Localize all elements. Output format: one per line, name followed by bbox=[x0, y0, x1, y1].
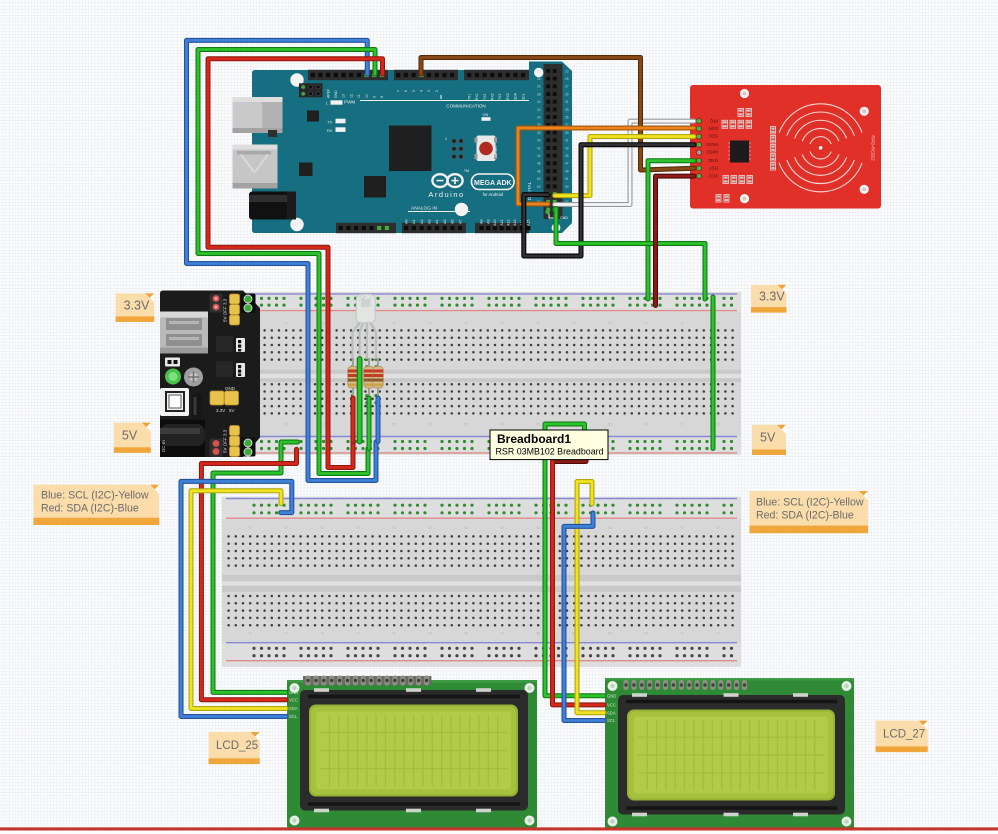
LCD module LCD_27 (I2C 20x4 LCD) bbox=[600, 678, 855, 829]
svg-text:33: 33 bbox=[565, 108, 569, 112]
svg-text:Blue: SCL (I2C)-Yellow: Blue: SCL (I2C)-Yellow bbox=[756, 497, 864, 509]
svg-text:30: 30 bbox=[537, 100, 541, 104]
wire blue BB2 rail to LCD_25 SCL bbox=[181, 481, 292, 716]
svg-text:GND: GND bbox=[560, 216, 568, 220]
svg-text:10: 10 bbox=[716, 526, 720, 530]
wire green Arduino D9 to BB1 bottom rail bbox=[198, 50, 375, 474]
svg-text:A10: A10 bbox=[493, 220, 497, 226]
note 5V left bbox=[114, 423, 151, 453]
svg-text:34: 34 bbox=[537, 116, 541, 120]
svg-text:26: 26 bbox=[537, 85, 541, 89]
svg-text:30: 30 bbox=[428, 631, 432, 635]
wire green rail jumper BB1 top to bottom bbox=[711, 297, 716, 449]
wire red Arduino D8 to BB1 bottom rail bbox=[208, 59, 383, 468]
svg-text:20: 20 bbox=[356, 526, 360, 530]
wire green BB1 rail to LCD_27 GND bbox=[545, 424, 604, 696]
svg-text:55: 55 bbox=[608, 631, 612, 635]
svg-text:27: 27 bbox=[565, 85, 569, 89]
svg-text:MISO: MISO bbox=[706, 150, 718, 155]
svg-text:23: 23 bbox=[565, 69, 569, 73]
svg-text:25: 25 bbox=[392, 423, 396, 427]
svg-text:3.3V: 3.3V bbox=[124, 298, 150, 312]
wire red BB1 rail to LCD_25 VCC bbox=[201, 449, 296, 699]
svg-text:60: 60 bbox=[644, 631, 648, 635]
svg-text:20: 20 bbox=[356, 631, 360, 635]
svg-text:15: 15 bbox=[320, 526, 324, 530]
svg-text:53: 53 bbox=[565, 185, 569, 189]
svg-text:A4: A4 bbox=[435, 220, 439, 224]
note I2C left bbox=[33, 485, 159, 525]
wire yellow BB2 rail to LCD_27 SDA bbox=[577, 482, 604, 713]
svg-text:A1: A1 bbox=[412, 220, 416, 224]
svg-text:Red: SDA (I2C)-Blue: Red: SDA (I2C)-Blue bbox=[41, 502, 139, 514]
Arduino Mega ADK U1 bbox=[233, 62, 573, 834]
svg-text:11: 11 bbox=[357, 94, 361, 98]
svg-text:13: 13 bbox=[342, 94, 346, 98]
LCD module LCD_25 (I2C 20x4 LCD) bbox=[282, 676, 538, 829]
svg-text:DIGITAL: DIGITAL bbox=[527, 181, 533, 200]
svg-text:35: 35 bbox=[464, 322, 468, 326]
svg-text:A12: A12 bbox=[507, 220, 511, 226]
svg-text:AREF: AREF bbox=[326, 89, 330, 98]
svg-text:5: 5 bbox=[412, 90, 416, 92]
svg-text:10: 10 bbox=[284, 526, 288, 530]
svg-text:10: 10 bbox=[284, 322, 288, 326]
svg-text:28: 28 bbox=[537, 92, 541, 96]
svg-text:45: 45 bbox=[536, 322, 540, 326]
svg-text:A9: A9 bbox=[486, 220, 490, 224]
svg-text:42: 42 bbox=[537, 146, 541, 150]
svg-text:30: 30 bbox=[428, 322, 432, 326]
svg-text:10: 10 bbox=[716, 631, 720, 635]
svg-text:32: 32 bbox=[537, 108, 541, 112]
svg-text:RX: RX bbox=[327, 128, 333, 133]
breadboard BB2 bbox=[222, 497, 741, 667]
svg-text:8: 8 bbox=[380, 96, 384, 98]
svg-text:SDA: SDA bbox=[289, 706, 298, 711]
note LCD_27 bbox=[876, 721, 928, 753]
svg-text:TM: TM bbox=[464, 169, 469, 173]
svg-text:MEGA ADK: MEGA ADK bbox=[474, 180, 512, 187]
wire brown Arduino D5 to RC522 RST bbox=[421, 58, 694, 171]
svg-text:25: 25 bbox=[392, 322, 396, 326]
svg-text:10: 10 bbox=[716, 322, 720, 326]
svg-text:50: 50 bbox=[572, 322, 576, 326]
svg-text:45: 45 bbox=[536, 423, 540, 427]
RFID-RC522 module U3 bbox=[690, 85, 881, 209]
svg-text:IRQ: IRQ bbox=[709, 118, 718, 123]
svg-text:40: 40 bbox=[500, 423, 504, 427]
svg-text:PWM: PWM bbox=[344, 100, 355, 105]
note 5V right bbox=[752, 425, 786, 455]
note 3.3V left bbox=[116, 293, 155, 322]
wire dark red BB1 rail stub bbox=[553, 449, 587, 461]
svg-text:22: 22 bbox=[537, 69, 541, 73]
svg-text:7: 7 bbox=[396, 90, 400, 92]
svg-text:6: 6 bbox=[404, 90, 408, 92]
note I2C right bbox=[750, 491, 869, 533]
svg-text:Red: SDA (I2C)-Blue: Red: SDA (I2C)-Blue bbox=[756, 509, 854, 521]
wire blue BB2 rail to LCD_27 SCL bbox=[564, 513, 604, 721]
svg-text:35: 35 bbox=[464, 526, 468, 530]
svg-text:SCK: SCK bbox=[708, 134, 718, 139]
svg-text:10: 10 bbox=[284, 423, 288, 427]
svg-text:LCD_25: LCD_25 bbox=[216, 740, 258, 752]
svg-text:31: 31 bbox=[565, 100, 569, 104]
svg-text:51: 51 bbox=[565, 177, 569, 181]
svg-text:A6: A6 bbox=[451, 220, 455, 224]
svg-text:SCL: SCL bbox=[607, 718, 616, 723]
svg-text:25: 25 bbox=[392, 631, 396, 635]
tooltip Breadboard1 bbox=[490, 430, 608, 460]
svg-text:A0: A0 bbox=[404, 220, 408, 224]
svg-text:48: 48 bbox=[537, 169, 541, 173]
svg-text:60: 60 bbox=[644, 322, 648, 326]
svg-text:5: 5 bbox=[249, 526, 251, 530]
svg-text:A8: A8 bbox=[480, 220, 484, 224]
svg-text:25: 25 bbox=[392, 526, 396, 530]
svg-text:VCC: VCC bbox=[289, 697, 298, 702]
note LCD_25 bbox=[209, 732, 260, 764]
svg-text:RX3: RX3 bbox=[506, 93, 510, 100]
svg-text:MOSI: MOSI bbox=[706, 142, 718, 147]
svg-text:GND: GND bbox=[289, 690, 298, 695]
MB102 power supply module U2 bbox=[160, 291, 260, 458]
resistor R1 bbox=[348, 358, 358, 398]
header bottom power/analog pins bbox=[336, 223, 396, 233]
svg-text:A13: A13 bbox=[513, 220, 517, 226]
svg-text:GND: GND bbox=[334, 90, 338, 98]
svg-text:5: 5 bbox=[681, 526, 683, 530]
svg-text:SSN: SSN bbox=[709, 126, 718, 131]
header right dual-row 22-53 bbox=[544, 64, 563, 219]
svg-text:3.3V: 3.3V bbox=[759, 289, 785, 303]
svg-text:47: 47 bbox=[565, 162, 569, 166]
svg-text:2: 2 bbox=[435, 90, 439, 92]
svg-text:40: 40 bbox=[537, 139, 541, 143]
resistor R2 bbox=[364, 358, 374, 398]
BB1 highlighted holes bbox=[351, 358, 354, 361]
svg-text:SCL: SCL bbox=[289, 714, 298, 719]
svg-text:35: 35 bbox=[565, 116, 569, 120]
wire blue Arduino D10 to BB1 bottom rail bbox=[187, 40, 377, 480]
wire green BB1 rail to LCD_25 GND bbox=[213, 442, 298, 692]
svg-text:GND: GND bbox=[225, 386, 236, 391]
svg-text:A3: A3 bbox=[428, 220, 432, 224]
wire red resistor R1 to rail bbox=[351, 398, 356, 442]
svg-text:TX2: TX2 bbox=[483, 94, 487, 100]
svg-text:24: 24 bbox=[537, 77, 541, 81]
svg-text:RFID-RC522: RFID-RC522 bbox=[871, 135, 876, 161]
wire green RC522 GND to BB1 top rail bbox=[648, 161, 694, 299]
svg-text:45: 45 bbox=[536, 526, 540, 530]
header top digital/pwm pins bbox=[308, 70, 388, 80]
svg-text:ANALOG IN: ANALOG IN bbox=[411, 206, 438, 212]
svg-text:5V: 5V bbox=[760, 431, 776, 445]
svg-text:GND: GND bbox=[538, 819, 542, 827]
svg-text:1: 1 bbox=[445, 137, 447, 141]
wire blue resistor R3 to rail bbox=[376, 398, 381, 442]
svg-text:ON: ON bbox=[483, 113, 489, 117]
svg-text:A11: A11 bbox=[500, 220, 504, 226]
svg-text:VCC: VCC bbox=[708, 173, 718, 178]
wire dark red RC522 VCC to BB1 top rail bbox=[656, 176, 695, 305]
wire green LED cathode to rail bbox=[357, 359, 363, 442]
svg-text:TX1: TX1 bbox=[467, 94, 471, 100]
svg-text:9: 9 bbox=[373, 96, 377, 98]
svg-text:RSR 03MB102 Breadboard: RSR 03MB102 Breadboard bbox=[496, 447, 604, 457]
wire red to LCD_27 VCC bbox=[553, 462, 605, 705]
svg-text:12: 12 bbox=[349, 94, 353, 98]
svg-text:29: 29 bbox=[565, 92, 569, 96]
bottom red divider bbox=[0, 827, 998, 830]
svg-text:44: 44 bbox=[537, 154, 541, 158]
svg-text:4: 4 bbox=[420, 90, 424, 92]
RGB LED D1 bbox=[352, 294, 376, 359]
svg-text:DC-In: DC-In bbox=[161, 440, 166, 452]
svg-text:10: 10 bbox=[716, 423, 720, 427]
svg-text:5V: 5V bbox=[229, 408, 235, 413]
svg-text:39: 39 bbox=[565, 131, 569, 135]
svg-text:SDA: SDA bbox=[607, 710, 616, 715]
svg-text:VCC: VCC bbox=[607, 703, 616, 708]
svg-text:45: 45 bbox=[536, 631, 540, 635]
wire orange Arduino pin to RC522 SSN bbox=[518, 128, 694, 204]
wire green Arduino GND to BB1 top rail bbox=[556, 209, 705, 300]
resistor R3 bbox=[373, 358, 383, 398]
svg-text:35: 35 bbox=[464, 631, 468, 635]
svg-text:COMMUNICATION: COMMUNICATION bbox=[446, 104, 485, 109]
svg-text:RX1: RX1 bbox=[475, 93, 479, 100]
svg-text:RX2: RX2 bbox=[491, 93, 495, 100]
svg-text:35: 35 bbox=[464, 423, 468, 427]
svg-text:40: 40 bbox=[500, 322, 504, 326]
svg-text:43: 43 bbox=[565, 146, 569, 150]
svg-text:A2: A2 bbox=[420, 220, 424, 224]
svg-text:49: 49 bbox=[565, 169, 569, 173]
svg-text:5: 5 bbox=[681, 322, 683, 326]
svg-text:TX3: TX3 bbox=[498, 94, 502, 100]
svg-text:60: 60 bbox=[644, 423, 648, 427]
svg-text:5: 5 bbox=[249, 631, 251, 635]
svg-text:LCD_27: LCD_27 bbox=[883, 729, 925, 741]
svg-text:15: 15 bbox=[320, 631, 324, 635]
wire black Arduino pin to RC522 MOSI bbox=[524, 145, 694, 256]
svg-text:60: 60 bbox=[644, 526, 648, 530]
svg-text:5: 5 bbox=[681, 423, 683, 427]
svg-text:SDA: SDA bbox=[514, 92, 518, 100]
svg-text:10: 10 bbox=[284, 631, 288, 635]
svg-text:50: 50 bbox=[537, 177, 541, 181]
svg-text:TX: TX bbox=[327, 119, 332, 124]
svg-text:3.3V: 3.3V bbox=[216, 408, 225, 413]
svg-text:3: 3 bbox=[427, 90, 431, 92]
svg-text:Arduino: Arduino bbox=[428, 190, 464, 199]
svg-text:40: 40 bbox=[500, 631, 504, 635]
svg-text:55: 55 bbox=[608, 423, 612, 427]
svg-text:Breadboard1: Breadboard1 bbox=[497, 432, 571, 446]
svg-text:SCL: SCL bbox=[521, 93, 525, 100]
svg-text:for Android: for Android bbox=[483, 192, 504, 197]
svg-text:55: 55 bbox=[608, 526, 612, 530]
svg-text:30: 30 bbox=[428, 423, 432, 427]
svg-text:5V: 5V bbox=[122, 428, 138, 442]
svg-text:RESET: RESET bbox=[494, 144, 498, 157]
svg-text:5: 5 bbox=[681, 631, 683, 635]
svg-text:10: 10 bbox=[365, 94, 369, 98]
breadboard BB1 (RSR 03MB102) bbox=[222, 292, 741, 455]
svg-text:A7: A7 bbox=[458, 220, 462, 224]
svg-text:5V OFF 3.3: 5V OFF 3.3 bbox=[223, 298, 228, 322]
svg-text:Blue: SCL (I2C)-Yellow: Blue: SCL (I2C)-Yellow bbox=[41, 490, 149, 502]
note 3.3V right bbox=[751, 285, 787, 313]
svg-text:41: 41 bbox=[565, 139, 569, 143]
svg-text:RST: RST bbox=[709, 166, 718, 171]
svg-text:45: 45 bbox=[565, 154, 569, 158]
svg-text:A15: A15 bbox=[527, 220, 531, 226]
wire yellow BB2 rail to LCD_25 SDA bbox=[191, 491, 286, 709]
svg-text:30: 30 bbox=[428, 526, 432, 530]
svg-text:52: 52 bbox=[537, 185, 541, 189]
wire green resistor R2 to rail bbox=[367, 398, 372, 449]
svg-text:5V OFF 3.3: 5V OFF 3.3 bbox=[223, 429, 228, 453]
svg-text:40: 40 bbox=[500, 526, 504, 530]
wire white Arduino pin to RC522 IRQ bbox=[555, 121, 694, 204]
svg-text:GND: GND bbox=[707, 158, 718, 163]
svg-text:GND: GND bbox=[607, 693, 616, 698]
svg-text:25: 25 bbox=[565, 77, 569, 81]
svg-text:46: 46 bbox=[537, 162, 541, 166]
wire yellow Arduino pin to RC522 SCK bbox=[555, 137, 694, 196]
svg-text:55: 55 bbox=[608, 322, 612, 326]
svg-text:A5: A5 bbox=[443, 220, 447, 224]
svg-text:38: 38 bbox=[537, 131, 541, 135]
